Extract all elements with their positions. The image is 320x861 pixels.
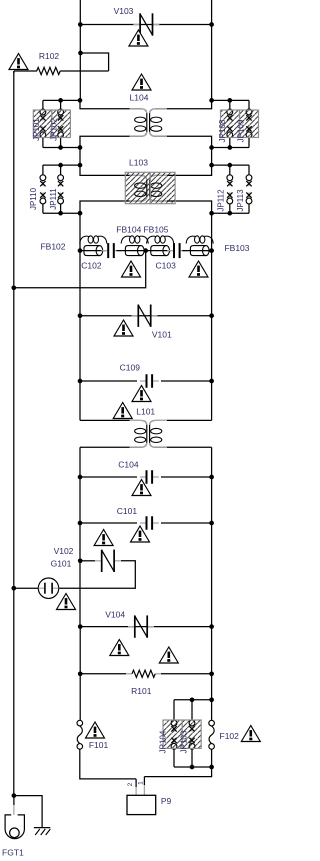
label V103: [114, 6, 134, 16]
svg-text:R102: R102: [39, 51, 60, 61]
label C103: [156, 260, 177, 270]
junction C101 right: [209, 521, 214, 526]
svg-text:JP109: JP109: [237, 119, 246, 142]
wire L104 right exit step: [166, 136, 212, 147]
wire C109 row: [80, 380, 212, 382]
wire L bus y447-477: [79, 447, 81, 477]
junction L bus at y147: [78, 145, 83, 150]
label JP110: [29, 187, 38, 210]
junction R102 tap on L bus: [78, 51, 83, 56]
svg-text:FGT1: FGT1: [2, 848, 24, 858]
inductor L104 common-mode choke: [130, 109, 168, 137]
hatch overlay JP104/JP103: [163, 720, 201, 748]
label FGT1: [2, 848, 24, 858]
junction FB row left: [78, 248, 83, 253]
wire L101 right lead: [166, 419, 212, 421]
label JP101: [32, 118, 41, 141]
svg-text:L101: L101: [136, 406, 155, 416]
wire L bus y477-523: [79, 477, 81, 523]
wire FB mid to PE: [14, 251, 146, 288]
jumper JP104: [171, 700, 177, 767]
wire L bus y147-165: [79, 148, 81, 166]
wire R bus y523-626: [211, 523, 213, 627]
svg-text:JP110: JP110: [29, 187, 38, 210]
label JP108: [218, 119, 227, 142]
svg-text:JP111: JP111: [49, 188, 58, 210]
wire L bus y523-626: [79, 523, 81, 627]
junction R bus at y165: [209, 163, 214, 168]
svg-text:V104: V104: [105, 609, 125, 619]
junction V104 left: [78, 624, 83, 629]
junction JP103 top: [190, 697, 195, 702]
label R101: [131, 686, 152, 696]
resistor R102: [37, 67, 61, 74]
junction C104 left: [78, 475, 83, 480]
wire G101 left lead: [14, 587, 39, 589]
hatch overlay JP101/JP102: [33, 110, 70, 138]
svg-text:FB102: FB102: [40, 241, 65, 251]
varistor V103: [133, 13, 159, 35]
svg-text:JP108: JP108: [218, 119, 227, 142]
wire R102 left lead to PE corner: [14, 71, 37, 73]
junction R bus at y213: [209, 211, 214, 216]
svg-text:V102: V102: [54, 546, 74, 556]
svg-text:C101: C101: [117, 506, 138, 516]
warning triangle at L104: [132, 74, 151, 90]
wire R bus top segment: [211, 0, 213, 100]
label FB102: [40, 241, 65, 251]
label JP103: [179, 730, 188, 753]
jumper JP103: [189, 700, 195, 767]
wire F102 to bottom bus: [211, 749, 213, 767]
junction FB row right: [209, 248, 214, 253]
junction R101 left: [78, 671, 83, 676]
svg-text:JP104: JP104: [158, 730, 167, 753]
wire L101 left exit: [80, 446, 130, 448]
wire JP101/JP102 bottom bus: [43, 147, 80, 149]
wire L103 left exit step: [80, 201, 130, 213]
svg-text:C104: C104: [118, 460, 139, 470]
label JP113: [236, 189, 245, 212]
svg-text:V103: V103: [114, 6, 134, 16]
wire L104 left lead step: [80, 100, 130, 108]
connector P9 pin 1: [143, 777, 145, 796]
svg-text:FB103: FB103: [224, 243, 249, 253]
wire V101 row: [80, 315, 212, 317]
svg-text:JP112: JP112: [216, 189, 225, 212]
junction R101 right: [209, 671, 214, 676]
wire R101 row: [80, 673, 211, 675]
ferrite bead FB102: [80, 236, 107, 256]
wire L103 right exit step: [166, 201, 212, 213]
wire L bus y315-381: [79, 316, 81, 381]
wire L104 left exit step: [80, 136, 130, 147]
wire R bus y447-477: [211, 447, 213, 477]
ferrite bead FB105: [147, 236, 174, 256]
warning triangle at V104 left: [110, 640, 129, 656]
warning triangle at F101: [86, 722, 105, 738]
wire L103 right lead step: [166, 165, 212, 175]
junction C101 left: [78, 521, 83, 526]
junction V101 left: [78, 313, 83, 318]
wire L bus y250-315: [79, 251, 81, 316]
junction C104 right: [209, 475, 214, 480]
wire left earth bus (PE): [13, 71, 15, 796]
inductor L103 common-mode choke (not populated): [130, 175, 168, 201]
wire FB row seg4: [182, 250, 211, 252]
wire L bus y674-720: [79, 674, 81, 721]
varistor V101: [132, 305, 158, 327]
resistor R101: [132, 670, 155, 677]
hatch overlay JP108/JP109: [221, 110, 259, 138]
wire V104 row: [80, 626, 211, 628]
jumper JP102: [58, 100, 64, 147]
connector P9 body: [127, 795, 156, 814]
svg-text:FB105: FB105: [143, 225, 168, 235]
svg-text:JP113: JP113: [236, 189, 245, 212]
wire JP104 block top bus: [174, 699, 212, 701]
warning triangle at G101: [57, 594, 76, 610]
svg-text:JP101: JP101: [32, 118, 41, 141]
svg-text:F101: F101: [89, 740, 109, 750]
junction R bus at y147: [209, 145, 214, 150]
label JP102: [50, 118, 59, 141]
label JP112: [216, 189, 225, 212]
wire C104 row: [80, 476, 212, 478]
junction G101 on PE bus: [11, 586, 16, 591]
label C102: [81, 260, 102, 270]
warning triangle at C102: [122, 261, 141, 277]
wire R bus y626-674: [211, 627, 213, 674]
warning triangle at V104 right: [159, 647, 178, 663]
wire L101 right exit: [166, 446, 212, 448]
svg-text:C109: C109: [120, 362, 141, 372]
junction C109 right: [209, 379, 214, 384]
label C101: [117, 506, 138, 516]
svg-text:L104: L104: [130, 92, 149, 102]
jumper JP111: [58, 165, 64, 213]
label V102: [54, 546, 74, 556]
jumper JP101: [40, 100, 46, 147]
svg-text:FB104: FB104: [116, 225, 141, 235]
junction C109 left: [78, 379, 83, 384]
junction L bus at y165: [78, 163, 83, 168]
junction JP111 bottom: [58, 211, 63, 216]
svg-text:JP103: JP103: [179, 730, 188, 753]
wire R bus y674-700: [211, 674, 213, 700]
svg-text:C102: C102: [81, 260, 102, 270]
junction PE at ground tap: [12, 793, 17, 798]
label R102: [39, 51, 60, 61]
wire JP108/JP109 bottom bus: [212, 147, 249, 149]
wire R bus y700-720: [211, 700, 213, 721]
gas discharge tube G101: [38, 578, 58, 598]
warning triangle at V101: [114, 320, 133, 336]
junction JP112 bottom: [227, 211, 232, 216]
wire bottom bus to P9 pin1: [144, 767, 211, 777]
junction V103 right: [209, 22, 214, 27]
wire L bus top segment: [79, 0, 81, 100]
svg-text:2: 2: [127, 782, 134, 786]
junction R bus at y700: [209, 697, 214, 702]
wire JP108/JP109 top bus: [212, 99, 249, 101]
wire JP110/JP111 bottom bus: [43, 212, 80, 214]
connector P9 pin 2: [135, 779, 137, 795]
pin number 2: [127, 782, 134, 786]
wire V103 row: [80, 24, 211, 26]
capacitor C103: [167, 243, 186, 258]
warning triangle at C109: [132, 386, 151, 402]
junction V104 right: [209, 624, 214, 629]
label P9: [161, 796, 172, 806]
junction L bus / JP top bus: [78, 98, 83, 103]
junction R bus at y767: [209, 765, 214, 770]
capacitor C104: [140, 470, 159, 484]
wire L bus y213-250: [79, 213, 81, 250]
wire JP112/JP113 bottom bus: [212, 212, 249, 214]
svg-text:C103: C103: [156, 260, 177, 270]
junction R bus / JP top bus: [209, 98, 214, 103]
junction JP111 top: [58, 163, 63, 168]
svg-text:P9: P9: [161, 796, 172, 806]
capacitor C101: [140, 516, 159, 530]
wire R bus y381-420: [211, 381, 213, 420]
junction JP108 top: [227, 98, 232, 103]
junction V103 left: [78, 22, 83, 27]
warning triangle at C104: [132, 480, 151, 496]
wire to chassis ground: [14, 796, 42, 828]
capacitor C102: [102, 243, 121, 258]
label FB105: [143, 225, 168, 235]
ferrite bead FB103: [186, 236, 213, 256]
wire FB row seg2: [116, 250, 145, 252]
label JP104: [158, 730, 167, 753]
warning triangle at C101: [131, 526, 150, 542]
junction V102 on L bus: [78, 558, 83, 563]
wire L bus y381-420: [79, 381, 81, 420]
warning triangle at V102: [94, 530, 113, 546]
junction L bus at y213: [78, 211, 83, 216]
wire JP110/JP111 top bus: [43, 164, 80, 166]
label C109: [120, 362, 141, 372]
fuse F101: [77, 720, 83, 749]
label F101: [89, 740, 109, 750]
label JP111: [49, 188, 58, 210]
jumper JP109: [246, 100, 252, 147]
junction JP102 top: [58, 98, 63, 103]
wire R bus y250-315: [211, 251, 213, 316]
wire L bus y626-674: [79, 627, 81, 674]
junction JP108 bottom: [227, 145, 232, 150]
jumper JP113: [246, 165, 252, 213]
junction JP102 bottom: [58, 145, 63, 150]
wire FB row seg3: [146, 250, 172, 252]
wire R bus y315-381: [211, 316, 213, 381]
label L103: [129, 157, 148, 167]
wire L101 left lead: [80, 419, 130, 421]
hatch overlay L103: [125, 172, 175, 203]
wire L104 right lead step: [166, 100, 212, 108]
junction V101 right: [209, 313, 214, 318]
wire FB row seg1: [80, 250, 106, 252]
pin number 1: [137, 781, 144, 785]
wire L103 left lead step: [80, 165, 130, 175]
wire R bus y477-523: [211, 477, 213, 523]
wire R bus y147-165: [211, 148, 213, 166]
wire JP104 block bottom bus: [174, 766, 212, 768]
fuse F102: [209, 720, 215, 749]
faston terminal FGT1: [5, 796, 24, 839]
label JP109: [237, 119, 246, 142]
svg-text:L103: L103: [129, 157, 148, 167]
wire R102 step to L bus: [60, 53, 108, 71]
varistor V104: [128, 615, 154, 637]
label V101: [152, 330, 172, 340]
svg-text:JP102: JP102: [50, 118, 59, 141]
label L104: [130, 92, 149, 102]
label L101: [136, 406, 155, 416]
junction FB row mid: [143, 248, 148, 253]
wire JP112/JP113 top bus: [212, 164, 249, 166]
jumper JP112: [227, 165, 233, 213]
wire V102 loop: [59, 561, 135, 588]
label G101: [51, 558, 72, 568]
junction FB mid tie on PE bus: [11, 285, 16, 290]
label V104: [105, 609, 125, 619]
label FB103: [224, 243, 249, 253]
ferrite bead FB104: [121, 236, 148, 256]
wire F101 to P9 pin2: [80, 749, 136, 779]
jumper JP108: [227, 100, 233, 147]
wire JP101/JP102 top bus: [43, 99, 80, 101]
warning triangle at F102: [241, 726, 260, 742]
junction JP112 top: [227, 163, 232, 168]
varistor V102: [95, 550, 121, 572]
inductor L101 common-mode choke: [130, 420, 168, 447]
svg-text:R101: R101: [131, 686, 152, 696]
label FB104: [116, 225, 141, 235]
warning triangle at R102: [9, 54, 28, 70]
svg-text:1: 1: [137, 781, 144, 785]
warning triangle at L101: [113, 403, 132, 419]
warning triangle at C103: [189, 261, 208, 277]
wire R bus y213-250: [211, 213, 213, 250]
svg-text:G101: G101: [51, 558, 72, 568]
ground chassis symbol: [34, 828, 50, 835]
svg-text:F102: F102: [220, 731, 240, 741]
jumper JP110: [40, 165, 46, 213]
wire C101 row: [80, 522, 212, 524]
svg-text:V101: V101: [152, 330, 172, 340]
warning triangle at V103: [129, 30, 148, 46]
junction JP103 bottom: [190, 765, 195, 770]
label C104: [118, 460, 139, 470]
label F102: [220, 731, 240, 741]
capacitor C109: [140, 374, 159, 388]
